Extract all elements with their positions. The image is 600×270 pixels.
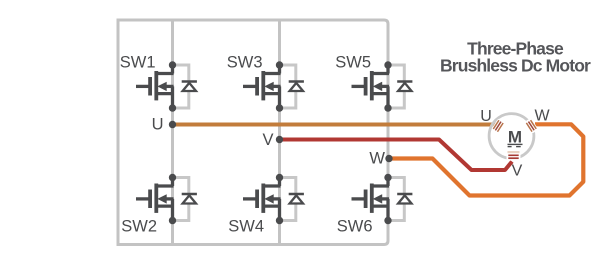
transistor SW1 (high-side, phase U) — [136, 61, 197, 111]
wire: half-bridge column 2 — [278, 20, 281, 245]
svg-text:SW1: SW1 — [120, 54, 156, 72]
svg-text:SW2: SW2 — [121, 218, 157, 236]
transistor SW3 (high-side, phase V) — [243, 61, 304, 111]
svg-text:U: U — [480, 108, 492, 125]
svg-text:V: V — [262, 131, 273, 149]
motor terminal pad V — [507, 153, 521, 161]
svg-text:Brushless Dc Motor: Brushless Dc Motor — [440, 55, 591, 75]
svg-text:W: W — [369, 150, 385, 168]
transistor SW5 (high-side, phase W) — [352, 61, 413, 111]
node V junction dot — [276, 136, 283, 143]
wire: phase U (orange) — [173, 123, 498, 127]
svg-text:SW6: SW6 — [337, 218, 373, 236]
svg-text:SW5: SW5 — [335, 54, 371, 72]
motor terminal V faint marking — [508, 151, 520, 153]
svg-text:SW4: SW4 — [228, 218, 264, 236]
wire: phase V (red) — [280, 140, 513, 171]
wire: half-bridge column 1 — [171, 20, 174, 245]
transistor SW2 (low-side, phase U) — [136, 174, 197, 224]
motor terminal pad U — [491, 118, 506, 134]
svg-text:W: W — [534, 108, 550, 125]
transistor SW4 (low-side, phase V) — [243, 174, 304, 224]
node W junction dot — [385, 155, 392, 162]
wire: DC bus frame (top bus, right column, bottom bus, left rail) — [118, 20, 388, 245]
node U junction dot — [169, 121, 176, 128]
motor M underline — [508, 143, 523, 145]
wire: phase W (orange) — [389, 124, 583, 195]
transistor SW6 (low-side, phase W) — [352, 174, 413, 224]
motor ring — [489, 114, 534, 159]
svg-text:U: U — [152, 116, 164, 134]
svg-text:SW3: SW3 — [227, 54, 263, 72]
motor M underline dashes — [508, 146, 512, 148]
svg-text:V: V — [512, 163, 523, 180]
motor terminal pad W — [524, 118, 539, 134]
